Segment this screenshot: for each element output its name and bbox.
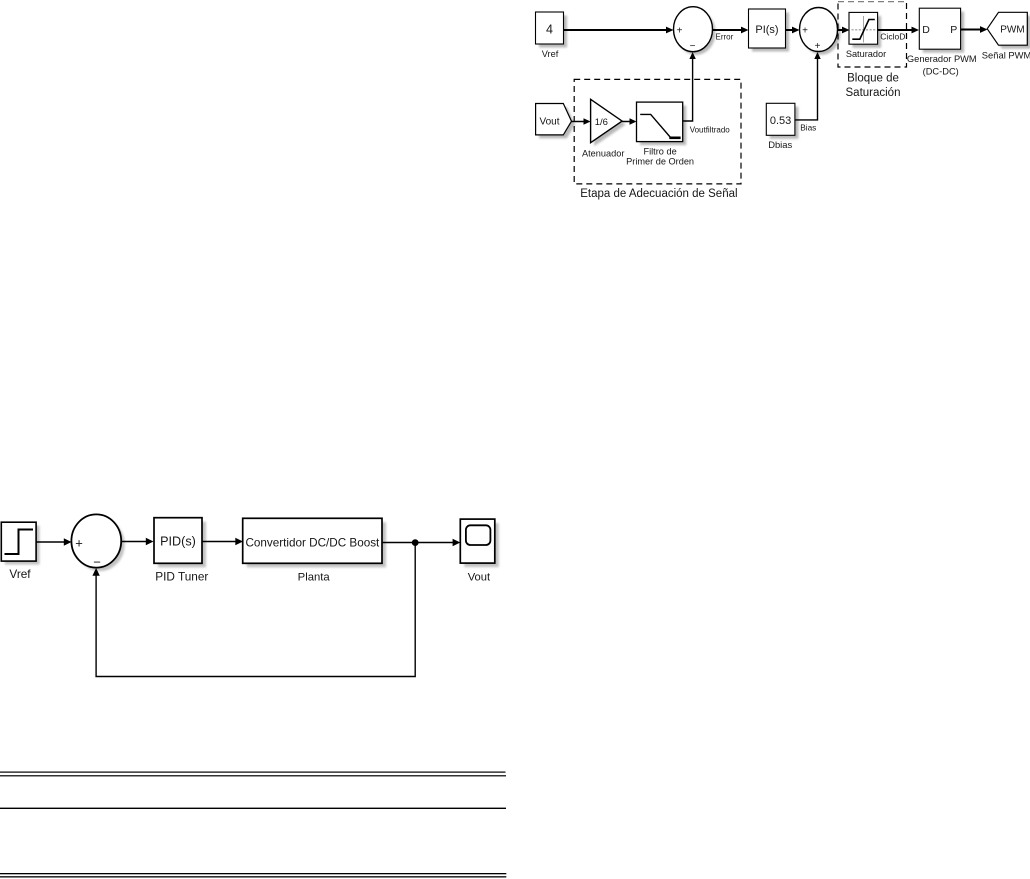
svg-text:Vout: Vout bbox=[468, 572, 491, 584]
svg-text:Primer de Orden: Primer de Orden bbox=[626, 157, 694, 167]
svg-text:D: D bbox=[922, 24, 930, 36]
svg-text:Dbias: Dbias bbox=[768, 139, 792, 150]
PI controller block PI(s) bbox=[749, 9, 790, 52]
svg-text:Error: Error bbox=[716, 32, 734, 41]
svg-text:1/6: 1/6 bbox=[595, 117, 608, 128]
PWM generator block Generador PWM (DC-DC) bbox=[919, 8, 964, 53]
filter block Filtro de Primer de Orden bbox=[637, 102, 687, 145]
label Filtro de Primer de Orden bbox=[626, 146, 694, 166]
svg-text:Filtro de: Filtro de bbox=[643, 146, 676, 156]
wire Vout to Atenuador bbox=[572, 118, 591, 124]
svg-text:P: P bbox=[950, 24, 957, 36]
svg-text:Saturador: Saturador bbox=[846, 49, 886, 59]
svg-text:Generador PWM: Generador PWM bbox=[907, 54, 977, 64]
wire step Vref to sum S3 bbox=[36, 538, 71, 545]
svg-text:4: 4 bbox=[546, 23, 553, 37]
output port PWM bbox=[987, 12, 1030, 48]
wire Vref to sum S1 bbox=[564, 27, 674, 34]
wire Dbias up to sum S2 plus input bbox=[795, 52, 821, 120]
table top double rule line 1 bbox=[0, 772, 506, 773]
table bottom double rule line 1 bbox=[0, 873, 506, 874]
wire S2 to Saturador bbox=[838, 27, 850, 34]
svg-text:PWM: PWM bbox=[1000, 25, 1024, 36]
PID controller block PID(s) bbox=[154, 518, 206, 568]
svg-text:Vref: Vref bbox=[542, 49, 559, 59]
svg-text:(DC-DC): (DC-DC) bbox=[923, 67, 959, 77]
svg-text:Vout: Vout bbox=[539, 117, 559, 128]
wire Filtro up to sum S1 minus input bbox=[683, 52, 696, 121]
sum junction S1 bbox=[674, 7, 716, 55]
feedback wire from junction to sum S3 bbox=[92, 543, 415, 677]
svg-text:PID Tuner: PID Tuner bbox=[155, 569, 208, 583]
label Generador PWM (DC-DC) bbox=[907, 54, 977, 77]
sum junction S3 bbox=[71, 514, 124, 571]
svg-text:Señal PWM: Señal PWM bbox=[982, 50, 1030, 61]
constant block Vref (value 4) bbox=[536, 12, 568, 48]
sum junction S2 bbox=[800, 8, 841, 55]
svg-text:−: − bbox=[690, 41, 696, 52]
wire Generador P to PWM port bbox=[961, 26, 988, 33]
plant block Convertidor DC/DC Boost bbox=[243, 518, 386, 567]
svg-text:Voutfiltrado: Voutfiltrado bbox=[690, 125, 731, 134]
dashed box Etapa de Adecuacion de Senal bbox=[574, 79, 741, 183]
saturation block Saturador bbox=[849, 12, 881, 47]
svg-text:+: + bbox=[75, 536, 83, 551]
svg-text:Saturación: Saturación bbox=[846, 87, 901, 99]
svg-text:+: + bbox=[815, 41, 821, 52]
table top double rule line 2 bbox=[0, 775, 506, 776]
dashed box Bloque de Saturacion bbox=[838, 2, 907, 68]
input port Vout bbox=[536, 104, 575, 139]
svg-text:Planta: Planta bbox=[298, 572, 331, 584]
junction node on output wire bbox=[412, 539, 419, 546]
svg-text:PID(s): PID(s) bbox=[160, 535, 196, 549]
wire PID(s) to Planta bbox=[202, 538, 243, 545]
wire S1 to PI(s) bbox=[713, 27, 749, 34]
scope block Vout bbox=[460, 519, 499, 567]
svg-text:PI(s): PI(s) bbox=[755, 24, 778, 36]
svg-text:Convertidor DC/DC Boost: Convertidor DC/DC Boost bbox=[245, 536, 380, 549]
constant block Dbias (value 0.53) bbox=[766, 103, 798, 139]
svg-text:Etapa de Adecuación de Señal: Etapa de Adecuación de Señal bbox=[580, 188, 737, 200]
svg-text:Bias: Bias bbox=[800, 122, 816, 132]
step source block Vref bbox=[1, 522, 39, 564]
wire Planta to scope Vout bbox=[382, 539, 460, 546]
svg-text:−: − bbox=[93, 554, 101, 569]
wire Saturador to Generador PWM bbox=[878, 27, 919, 34]
svg-text:+: + bbox=[677, 26, 683, 37]
svg-text:0.53: 0.53 bbox=[770, 115, 791, 127]
wire S3 to PID(s) bbox=[121, 538, 153, 545]
wire PI(s) to sum S2 bbox=[786, 27, 800, 34]
gain block Atenuador 1/6 bbox=[591, 99, 626, 146]
label Bloque de Saturacion bbox=[846, 73, 901, 99]
svg-text:Atenuador: Atenuador bbox=[582, 149, 624, 159]
wire Atenuador to Filtro bbox=[622, 118, 636, 124]
svg-text:Bloque de: Bloque de bbox=[847, 73, 899, 85]
table bottom double rule line 2 bbox=[0, 876, 506, 877]
table header rule bbox=[0, 808, 506, 809]
svg-text:CicloD: CicloD bbox=[880, 32, 905, 42]
svg-text:Vref: Vref bbox=[9, 567, 31, 581]
svg-text:+: + bbox=[802, 26, 808, 37]
